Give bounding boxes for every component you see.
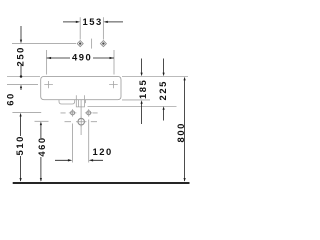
svg-text:490: 490 [72,52,92,63]
svg-text:120: 120 [92,146,112,157]
svg-text:460: 460 [36,136,47,156]
svg-text:153: 153 [82,16,102,27]
svg-text:510: 510 [14,135,25,155]
svg-text:60: 60 [5,92,16,106]
svg-text:250: 250 [15,46,26,66]
svg-text:185: 185 [137,79,148,99]
svg-text:800: 800 [175,122,186,142]
svg-text:225: 225 [157,80,168,100]
